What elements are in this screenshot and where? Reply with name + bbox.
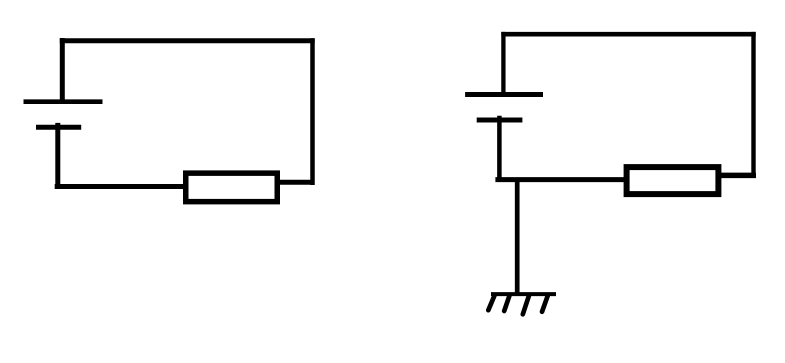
resistor R2 bbox=[627, 167, 719, 194]
wire: right circuit right vertical bbox=[751, 32, 755, 177]
wire: right circuit, vertical from battery negative to bottom node bbox=[497, 116, 502, 182]
ground hatch 1 bbox=[488, 296, 494, 311]
wire: left circuit, resistor to right vertical bbox=[277, 180, 314, 185]
ground hatch 2 bbox=[504, 296, 509, 312]
wire: right circuit, vertical from top wire to battery positive bbox=[501, 32, 505, 95]
wire: right circuit top bbox=[501, 32, 755, 37]
battery B2 positive plate (long) bbox=[465, 92, 543, 97]
wire: ground stem bbox=[515, 181, 520, 296]
wire: left circuit, vertical from battery negative to bottom wire bbox=[55, 123, 60, 189]
wire: right circuit bottom (node to resistor) bbox=[495, 177, 627, 182]
battery B1 positive plate (long) bbox=[24, 99, 103, 104]
wire: left circuit, vertical from top wire to battery positive bbox=[60, 38, 65, 102]
wire: left circuit bottom bbox=[55, 184, 186, 189]
wire: left circuit right vertical bbox=[310, 38, 315, 185]
battery B1 negative plate (short) bbox=[36, 125, 81, 130]
ground hatch 4 bbox=[542, 296, 548, 312]
wire: left circuit top bbox=[60, 38, 315, 43]
ground symbol bar bbox=[491, 292, 556, 296]
wire: right circuit, resistor to right vertical bbox=[719, 173, 756, 179]
ground hatch 3 bbox=[523, 296, 529, 315]
resistor R1 bbox=[186, 173, 278, 202]
battery B2 negative plate (short) bbox=[477, 118, 523, 123]
